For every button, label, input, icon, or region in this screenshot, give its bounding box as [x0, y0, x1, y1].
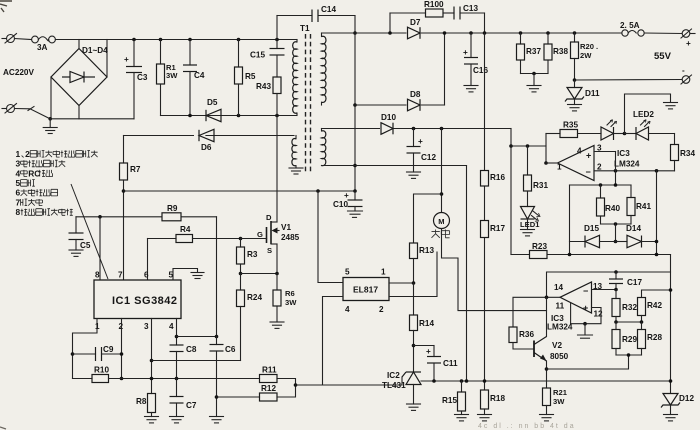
resistor R15 [442, 379, 466, 414]
ground D11 [568, 105, 582, 111]
LED a [601, 120, 625, 140]
capacitor C13 [454, 4, 485, 33]
svg-text:C4: C4 [194, 71, 205, 80]
svg-text:D1~D4: D1~D4 [82, 46, 108, 55]
wire row B to R24 [152, 360, 241, 362]
capacitor C17 [609, 272, 642, 290]
resistor R16 [481, 171, 506, 187]
svg-text:EL817: EL817 [353, 285, 378, 295]
scan artifact bottom-left corner [0, 427, 6, 429]
resistor R9 [162, 204, 181, 221]
resistor R14 [410, 283, 435, 372]
ground LED1 [521, 230, 535, 236]
svg-text:R17: R17 [490, 224, 505, 233]
ground LED bracket [664, 103, 678, 109]
wire VCC to EL817 [318, 191, 343, 283]
wire pin1 down-left column [73, 319, 98, 379]
svg-text:-: - [682, 66, 685, 75]
node C12 tap [412, 127, 416, 131]
LED2 [625, 110, 675, 140]
svg-text:R6: R6 [285, 289, 295, 298]
svg-text:R16: R16 [490, 173, 505, 182]
node LED junction [623, 132, 627, 136]
svg-text:12: 12 [594, 310, 604, 319]
wire EL817 pin1 row [389, 282, 414, 284]
svg-text:IC3: IC3 [617, 149, 630, 158]
wire EL817 pin4 side [323, 297, 344, 386]
node emitter row [545, 367, 549, 371]
wire right outer column [670, 255, 672, 394]
svg-text:+: + [463, 48, 468, 57]
ground R21 [540, 415, 554, 421]
ground R37 R38 [527, 74, 541, 92]
node VCC row EL817 branch [316, 189, 320, 193]
wire R37 R38 join [521, 73, 549, 75]
svg-text:R9: R9 [167, 204, 178, 213]
wire secondary lower output row (D10 row) [322, 128, 512, 130]
wire 12V step to LED row [510, 129, 512, 255]
wire tap down [615, 224, 617, 242]
svg-text:6: 6 [144, 271, 149, 280]
node R5 bottom [237, 114, 241, 118]
wire pin2 row [594, 170, 675, 172]
node pin8 column [98, 215, 102, 219]
node fan motor tap [440, 127, 444, 131]
resistor R43 [256, 77, 281, 116]
resistor R23 [530, 242, 548, 259]
capacitor C5 [69, 217, 91, 250]
svg-text:C9: C9 [103, 345, 114, 354]
node feedback divider [294, 383, 298, 387]
transistor V2 8050 [534, 297, 569, 388]
node VCC row C10 [353, 189, 357, 193]
diode D14 [616, 224, 657, 248]
wire mid row [616, 321, 642, 323]
svg-text:14: 14 [554, 283, 564, 292]
node pin13 R32 [614, 288, 618, 292]
svg-text:3W: 3W [285, 298, 297, 307]
svg-text:R42: R42 [647, 301, 662, 310]
node R23 bracket [568, 253, 572, 257]
node rail C15 [275, 38, 279, 42]
svg-text:4: 4 [16, 168, 21, 178]
svg-text:C7: C7 [186, 401, 197, 410]
svg-text:+: + [426, 347, 431, 356]
svg-text:11: 11 [556, 302, 565, 311]
svg-text:IC1 SG3842: IC1 SG3842 [112, 295, 178, 307]
node diode tap [614, 222, 618, 226]
svg-text:R41: R41 [636, 202, 651, 211]
wire divider to TL431 ref [296, 384, 403, 386]
svg-text:6: 6 [16, 188, 21, 198]
node gate R3 [239, 237, 243, 241]
node mid R42 [640, 320, 644, 324]
svg-text:7: 7 [16, 197, 21, 207]
svg-text:55V: 55V [654, 51, 672, 62]
diode D10 [380, 113, 396, 134]
wire R40 R41 top rail [570, 184, 632, 186]
node C8 bottom R10 row [175, 377, 179, 381]
svg-text:R32: R32 [622, 303, 637, 312]
node rail C3 [132, 38, 136, 42]
node secondary top [353, 31, 357, 35]
resistor R3 [237, 239, 258, 274]
AC input terminal bottom [2, 104, 17, 114]
resistor R8 [136, 394, 156, 417]
transformer T1 secondary winding upper [322, 33, 327, 105]
diode D6 [194, 129, 214, 152]
svg-text:8: 8 [16, 207, 21, 217]
wire snubber branch up [389, 13, 391, 33]
capacitor C15 [250, 40, 285, 78]
svg-text:1: 1 [16, 149, 21, 159]
wire pin4 row to C6 [177, 336, 217, 338]
wire opamp output column [545, 134, 547, 164]
svg-text:R10: R10 [94, 366, 109, 375]
ground D12 [664, 415, 678, 421]
wire clamp row (D5 row) [161, 115, 297, 117]
svg-text:+: + [686, 39, 691, 48]
ground C10 [348, 211, 363, 217]
wire bridge bottom down [78, 106, 80, 119]
node R20 bottom [573, 78, 577, 82]
svg-text:LED1: LED1 [520, 220, 540, 229]
wire minus row [575, 79, 683, 82]
node R13 tap [440, 192, 444, 196]
wire pin2 branch column [615, 152, 617, 186]
resistor R40 [597, 185, 621, 224]
svg-text:AC220V: AC220V [3, 68, 34, 77]
svg-text:2: 2 [379, 305, 384, 314]
svg-text:C5: C5 [80, 241, 91, 250]
svg-text:R3: R3 [247, 250, 258, 259]
svg-text:R100: R100 [424, 0, 444, 9]
node C17 top [614, 270, 618, 274]
node R20 top [573, 31, 577, 35]
wire pin11 lead [570, 303, 572, 324]
node rail C4 [188, 38, 192, 42]
svg-text:13: 13 [593, 282, 603, 291]
capacitor C10 [333, 191, 363, 211]
node C6 R12 row [215, 395, 219, 399]
node D15 D14 junction [614, 240, 618, 244]
svg-text:R40: R40 [605, 204, 620, 213]
node pin2 R40 column [614, 169, 618, 173]
resistor R4 [148, 225, 267, 280]
op-amp IC3 LM324 lower [547, 282, 603, 332]
wire R29 R28 bottom row [616, 354, 642, 356]
resistor R31 [524, 146, 549, 207]
AC input terminal top [2, 34, 17, 44]
ground C12 [407, 172, 421, 178]
wire pin2 column [121, 319, 123, 379]
node rail R5 [237, 38, 241, 42]
svg-text:3: 3 [16, 159, 21, 169]
resistor R20 2W [571, 33, 599, 80]
node C16 tap [469, 31, 473, 35]
wire bridge left corner down [50, 77, 52, 119]
svg-text:R18: R18 [490, 394, 505, 403]
capacitor C6 [210, 337, 236, 417]
svg-text:IC2: IC2 [387, 371, 400, 380]
bridge rectifier D1~D4 [51, 46, 108, 106]
resistor R5 [235, 40, 256, 116]
svg-text:R43: R43 [256, 82, 271, 91]
svg-text:R38: R38 [553, 47, 568, 56]
node R14 bottom [412, 344, 416, 348]
resistor R100 [424, 0, 454, 17]
IC1 SG3842 box [94, 271, 181, 332]
svg-text:R15: R15 [442, 396, 457, 405]
svg-text:8050: 8050 [550, 352, 569, 361]
svg-text:2W: 2W [580, 51, 592, 60]
node source row left [239, 272, 243, 276]
svg-text:1: 1 [557, 163, 562, 172]
diode D8 [407, 90, 422, 111]
wire return column down [466, 166, 468, 382]
svg-text:+: + [124, 55, 129, 64]
node output [544, 161, 548, 165]
resistor R37 [517, 33, 542, 74]
diode D5 [206, 98, 221, 122]
svg-text:D11: D11 [585, 89, 600, 98]
svg-text:1: 1 [381, 268, 386, 277]
diode D15 [570, 224, 616, 248]
resistor R7 [120, 136, 141, 281]
svg-text:R5: R5 [245, 72, 256, 81]
svg-text:D7: D7 [410, 18, 421, 27]
ground C6 [210, 417, 224, 423]
node source row right [275, 272, 279, 276]
output terminal - [681, 66, 692, 84]
mosfet V1 2485 [241, 116, 300, 274]
ground auxiliary winding [289, 168, 303, 174]
wire bridge right to rail [106, 40, 108, 78]
wire pin13 row [592, 289, 617, 291]
scan artifact top-left corner [0, 1, 12, 12]
svg-text:R7: R7 [130, 165, 141, 174]
fuse 3A [32, 36, 56, 52]
transformer T1 auxiliary winding [292, 136, 296, 169]
capacitor C8 [170, 345, 197, 379]
node pin3 R10 row [150, 377, 154, 381]
wire output to R36 [513, 297, 560, 327]
svg-text:R31: R31 [533, 181, 548, 190]
svg-text:4: 4 [169, 322, 174, 331]
resistor R21 3W [543, 388, 568, 415]
resistor R38 [544, 33, 568, 74]
svg-text:4: 4 [577, 147, 582, 156]
ground R15 [455, 415, 469, 421]
svg-text:R20 .: R20 . [580, 42, 598, 51]
node R43 bottom / V1 drain column [275, 114, 279, 118]
svg-text:C17: C17 [627, 278, 642, 287]
capacitor C14 [277, 5, 355, 40]
node D8 anode row [353, 103, 357, 107]
resistor R24 [237, 274, 263, 361]
node C6 top [215, 335, 219, 339]
node R16 column top [483, 31, 487, 35]
svg-text:−: − [583, 286, 588, 296]
node emitter branch [627, 353, 631, 357]
svg-text:3A: 3A [37, 43, 48, 52]
node R38 top [546, 31, 550, 35]
svg-text:R21: R21 [553, 388, 568, 397]
wire EL817 pin2 stub [389, 252, 437, 297]
label fan text [432, 230, 440, 238]
wire secondary top row to +rail [322, 32, 623, 34]
svg-text:T1: T1 [300, 24, 310, 33]
svg-text:D: D [266, 213, 272, 222]
svg-text:C13: C13 [463, 4, 478, 13]
ground TL431 [407, 404, 421, 410]
svg-text:2. 5A: 2. 5A [620, 21, 640, 30]
capacitor C11 [426, 346, 458, 382]
svg-text:V1: V1 [281, 223, 291, 232]
transformer T1 core [300, 24, 311, 174]
transformer T1 secondary winding lower [322, 129, 326, 166]
wire pin3 bracket [594, 151, 616, 153]
ground opamp2 [578, 324, 593, 339]
wire left bracket column [569, 185, 571, 255]
ground R6 [270, 322, 284, 328]
svg-text:+: + [418, 137, 423, 146]
svg-text:C14: C14 [321, 5, 336, 14]
ground C16 [464, 86, 478, 92]
svg-text:R36: R36 [519, 330, 534, 339]
transformer T1 primary winding [293, 40, 297, 116]
wire terminal to bridge left node [15, 109, 51, 119]
node C4 bottom [188, 114, 192, 118]
resistor R6 3W [273, 274, 297, 323]
node R42 column [669, 288, 673, 292]
diode D7 [407, 18, 422, 39]
wire R40 R41 bottom rail [601, 223, 632, 225]
svg-text:LM324: LM324 [547, 323, 573, 332]
node C9 left [71, 352, 75, 356]
node secondary lower bottom [353, 164, 357, 168]
wire LED junction bracket to ground [625, 94, 671, 134]
svg-text:+: + [586, 151, 591, 161]
resistor R12 [217, 384, 296, 401]
svg-text:+: + [583, 303, 588, 313]
wire pin12 bracket [571, 308, 601, 324]
wire opamp2 output row [547, 272, 671, 297]
resistor R41 [627, 185, 651, 224]
wire secondary lower return row [322, 165, 467, 167]
wire fuse to rail [55, 39, 297, 41]
svg-text:R24: R24 [247, 293, 262, 302]
wire return row [50, 118, 134, 120]
wire row to opamp output column [511, 145, 546, 147]
node bridge negative [48, 117, 52, 121]
svg-text:C11: C11 [443, 359, 458, 368]
wire D6 row [124, 135, 295, 137]
wire pin4 column [176, 319, 178, 346]
node D14 column [655, 240, 659, 244]
node R40 top [599, 183, 603, 187]
node pin2 C9 [120, 352, 124, 356]
svg-text:R11: R11 [262, 366, 277, 375]
svg-text:G: G [257, 230, 263, 239]
svg-text:R23: R23 [532, 242, 547, 251]
svg-text:C16: C16 [473, 66, 488, 75]
resistor R17 [481, 221, 506, 238]
svg-text:+: + [344, 191, 349, 200]
wire source row [241, 273, 278, 275]
svg-text:C3: C3 [137, 73, 148, 82]
svg-text:4c dl .: nn bb 4t da: 4c dl .: nn bb 4t da [478, 423, 576, 430]
resistor R32 [612, 290, 637, 323]
ground R8 [145, 417, 159, 423]
resistor R10 [73, 366, 260, 383]
wire Vref row [76, 216, 217, 218]
svg-text:R35: R35 [563, 121, 578, 130]
ground C5 [69, 250, 83, 256]
node pin4 row [175, 335, 179, 339]
ground R18 [478, 415, 492, 421]
node 12V step [509, 144, 513, 148]
svg-text:3W: 3W [166, 71, 178, 80]
svg-text:R4: R4 [180, 225, 191, 234]
svg-text:V2: V2 [552, 341, 562, 350]
capacitor C16 [463, 33, 488, 86]
node rail pin2 [614, 183, 618, 187]
wire pin3 column [151, 319, 153, 394]
svg-text:R37: R37 [526, 47, 541, 56]
svg-text:S: S [267, 246, 272, 255]
svg-text:D8: D8 [410, 90, 421, 99]
node R18 rail [483, 379, 487, 383]
resistor R11 [260, 366, 296, 386]
svg-text:R34: R34 [680, 149, 695, 158]
wire R16 column [484, 33, 486, 390]
svg-text:R8: R8 [136, 397, 147, 406]
resistor R35 [546, 121, 601, 138]
svg-text:D6: D6 [201, 143, 212, 152]
resistor R28 [638, 322, 663, 355]
svg-text:R13: R13 [419, 246, 434, 255]
node C11 rail [432, 379, 436, 383]
svg-text:5: 5 [345, 268, 350, 277]
wire R23 row [511, 254, 671, 256]
svg-text:2: 2 [597, 163, 602, 172]
svg-text:D15: D15 [584, 224, 599, 233]
wire D8 output up to D7 output [444, 33, 446, 105]
svg-text:R28: R28 [647, 333, 662, 342]
capacitor C9 [73, 345, 122, 361]
svg-text:C12: C12 [421, 153, 436, 162]
ground C7 [170, 417, 184, 423]
node ground leg [583, 322, 587, 326]
svg-text:D14: D14 [626, 224, 641, 233]
wire fan column [441, 129, 443, 213]
svg-text:3: 3 [144, 322, 149, 331]
wire emitter row [547, 355, 629, 369]
node rail D12 [669, 379, 673, 383]
output terminal + [681, 29, 695, 48]
svg-text:LM324: LM324 [614, 160, 640, 169]
svg-text:M: M [438, 217, 444, 226]
node output collector [545, 296, 549, 300]
wire output to opamp [546, 162, 558, 164]
resistor R36 [509, 327, 534, 349]
node pin2 R10 [120, 377, 124, 381]
resistor R13 [410, 194, 442, 283]
wire VCC row [124, 190, 356, 192]
svg-text:8: 8 [95, 271, 100, 280]
ground pin5 [191, 273, 204, 279]
